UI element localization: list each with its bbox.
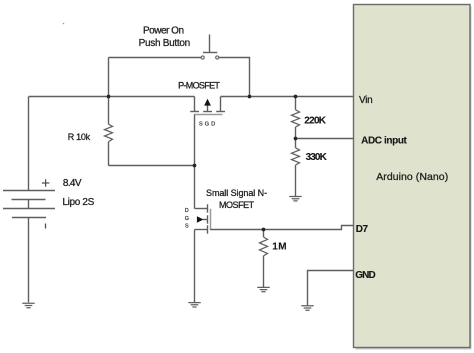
svg-text:ADC input: ADC input (361, 135, 407, 146)
svg-text:G: G (185, 216, 189, 222)
svg-text:Power On: Power On (143, 25, 184, 36)
svg-text:Lipo 2S: Lipo 2S (62, 197, 94, 208)
svg-text:Small Signal N-: Small Signal N- (206, 188, 267, 198)
svg-text:Push Button: Push Button (139, 38, 191, 49)
svg-text:Arduino (Nano): Arduino (Nano) (376, 171, 448, 183)
svg-text:R 10k: R 10k (68, 132, 91, 142)
svg-text:GND: GND (355, 270, 375, 281)
svg-text:220K: 220K (304, 115, 326, 126)
svg-text:1M: 1M (272, 242, 286, 253)
svg-text:S G D: S G D (199, 121, 215, 127)
svg-text:8.4V: 8.4V (63, 178, 82, 189)
svg-text:MOSFET: MOSFET (219, 200, 255, 210)
svg-text:D: D (185, 208, 189, 214)
svg-text:S: S (185, 224, 189, 230)
svg-text:Vin: Vin (359, 95, 373, 106)
svg-text:P-MOSFET: P-MOSFET (178, 81, 220, 91)
svg-text:330K: 330K (306, 152, 328, 163)
svg-text:D7: D7 (356, 224, 369, 235)
